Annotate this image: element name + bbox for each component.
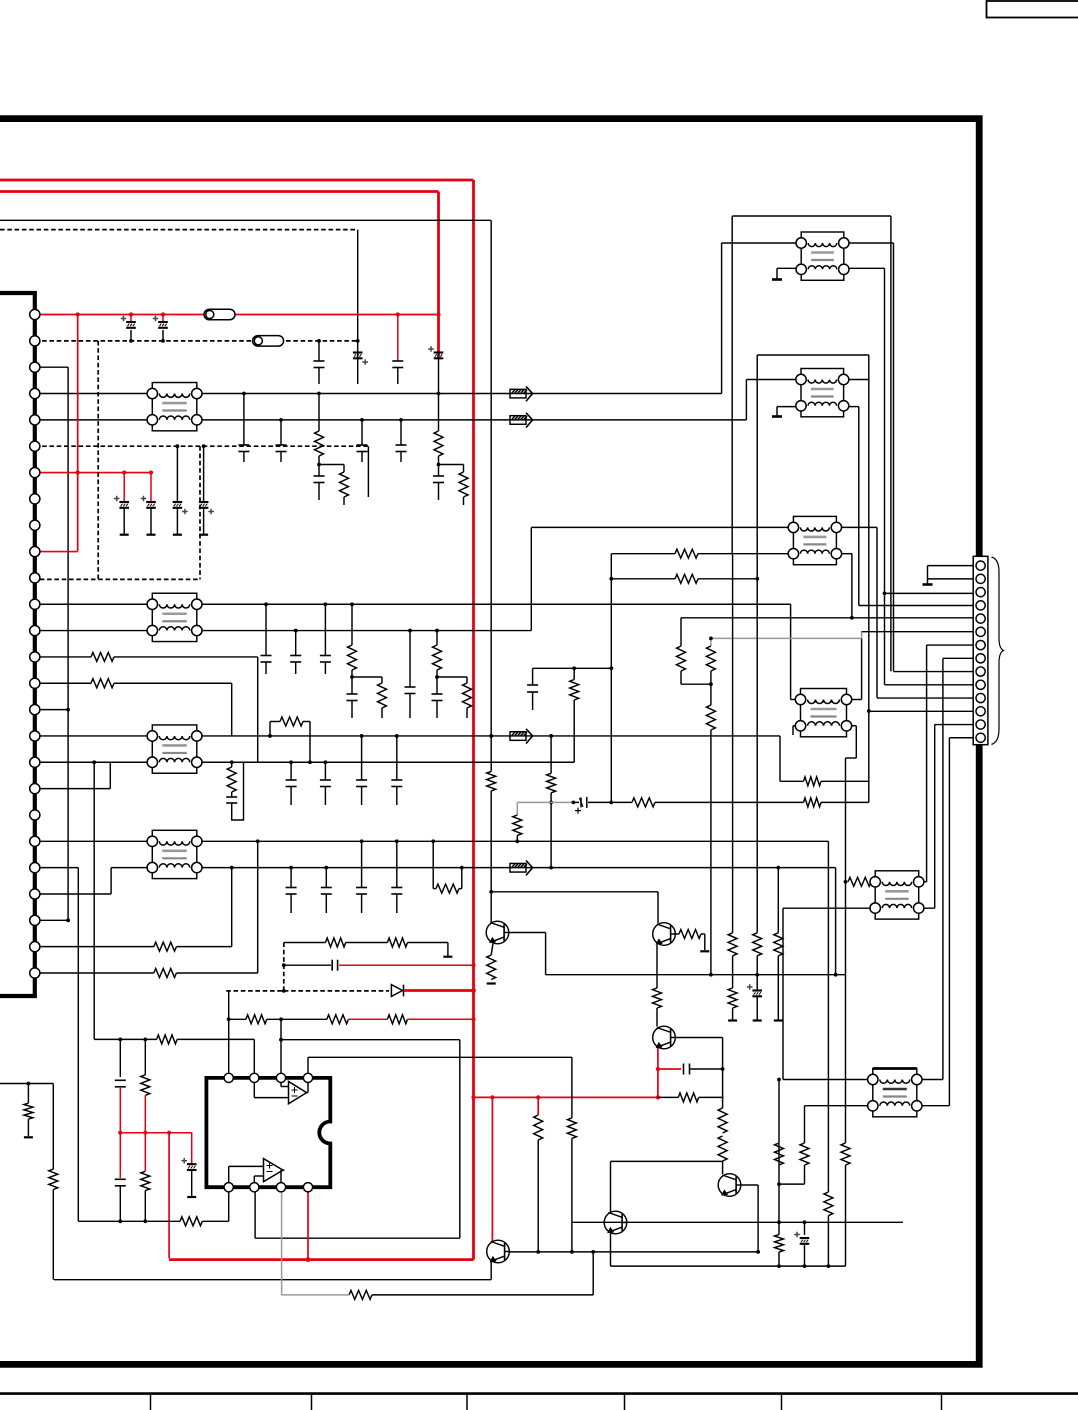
junction (283,965)	[282, 963, 286, 967]
connector CN2 pin 9	[976, 667, 985, 676]
wire res781 row b	[821, 780, 869, 782]
stub T6cap 291.1	[290, 894, 292, 913]
wire x=783 down	[782, 908, 784, 1079]
lead res pair x=319	[318, 456, 320, 465]
wire vertical x=68	[67, 367, 69, 920]
junction (593.2,1251)	[591, 1250, 595, 1254]
junction (145.3,1039)	[143, 1038, 147, 1042]
lead T4cap 325.4	[324, 762, 326, 780]
red junction (473,965)	[471, 963, 475, 967]
wire bus pin25 row a	[35, 946, 154, 948]
IC U1 top pin x=254.3	[250, 1073, 259, 1082]
connector CN1 pin 10	[30, 546, 40, 556]
transistor Q1	[486, 921, 509, 944]
wire y=802 row a	[611, 801, 632, 803]
capacitor C-804 electrolytic	[800, 1238, 810, 1244]
connector CN1 pin 2	[30, 336, 40, 346]
wire bus pin15 row a	[35, 682, 91, 684]
connector CN1 pin 25	[30, 942, 40, 952]
capacitor C-T4-325.4	[320, 779, 331, 781]
wire conn pin13	[935, 724, 973, 726]
T9 bl row	[783, 907, 875, 909]
connector CN1 pin 24	[30, 915, 40, 925]
wire x=835 down	[835, 868, 837, 975]
capacitor C-T2-266	[261, 655, 272, 657]
resistor R-pairT2-437	[463, 683, 472, 708]
junction (438.5,k3)	[437, 392, 441, 396]
connector CN1 pin 15	[30, 678, 40, 688]
junction (611,578)	[609, 577, 613, 581]
wire T5br jog h	[846, 757, 857, 759]
junction (120.3,1221)	[118, 1219, 122, 1223]
bottom table tick 3	[466, 1394, 468, 1410]
capacitor C-T2-410	[405, 686, 416, 688]
wire x=551 down b	[550, 793, 552, 868]
bridgeT6 right lead	[461, 868, 463, 889]
junction (401,k4)	[399, 418, 403, 422]
capacitor C-531	[527, 684, 538, 686]
junction (362,k4)	[360, 418, 364, 422]
dashed wire y=990 b	[284, 990, 389, 992]
wire Q2 r down	[704, 934, 706, 950]
wire conn pin9	[894, 671, 974, 673]
IC U1 bottom pin x=308	[303, 1183, 312, 1192]
wire into T7 top-left	[722, 242, 802, 244]
lead resT2 437	[436, 631, 438, 645]
wire 732 stub	[732, 1008, 734, 1020]
wire y=942 row a	[284, 942, 326, 944]
red lead 145 low	[144, 1133, 146, 1172]
junction (517,841)	[515, 839, 519, 843]
stub pairT2c 437	[436, 701, 438, 719]
capacitor C-965	[331, 960, 333, 971]
junction (779,1266)	[777, 1264, 781, 1268]
resistor R-732	[728, 933, 737, 956]
wire 778 stub	[777, 956, 779, 1020]
red lead 120 low	[119, 1133, 121, 1178]
lead capT2 266	[265, 604, 267, 655]
wire pin3 col up	[280, 1019, 282, 1078]
stub T6cap 396.8	[396, 894, 398, 913]
junction (573,802)	[572, 801, 576, 805]
wire x=858 down to conn pin4	[858, 407, 860, 606]
capacitor C-k5-203.6 electrolytic	[199, 502, 209, 508]
junction (243.9,k3)	[242, 392, 246, 396]
lead cap row1 x=243.9	[243, 394, 245, 445]
connector CN1 pin 21	[30, 836, 40, 846]
stub T4cap 396.8	[396, 787, 398, 806]
lead T6cap 326.3	[325, 868, 327, 888]
wire op2 in- h	[229, 1165, 264, 1167]
IC U1 top pin x=228.7	[224, 1073, 233, 1082]
red junction (397.8,315)	[396, 312, 400, 316]
resistor R-804	[800, 1143, 809, 1165]
resistor R-781	[804, 777, 822, 786]
wire into T8 top-left	[746, 379, 801, 381]
stub 757	[756, 997, 758, 1020]
connector CN1 pin 19	[30, 784, 40, 794]
red wire x=492 down	[491, 1097, 493, 1241]
lead C2a	[318, 341, 320, 361]
wire T6 bl elbow c	[35, 893, 111, 895]
resistor R-k13	[91, 652, 114, 661]
red wire bus pin10 row	[35, 551, 78, 553]
lead res row1 x=438.5	[438, 394, 440, 431]
wire pin1 col up	[228, 991, 230, 1078]
T8 ground lead a	[777, 406, 801, 408]
red wire Q3 emitter	[657, 1048, 659, 1069]
capacitor C-T4-361.6	[356, 779, 367, 781]
wire conn pin6 row	[862, 631, 973, 633]
connector CN2 pin 10	[976, 680, 985, 689]
off-page arrow 4	[510, 861, 533, 876]
capacitor C-row1-243.9	[238, 444, 249, 446]
stub T6cap 326.3	[325, 894, 327, 913]
lead ecap 203.6	[203, 446, 205, 502]
wire x=845 down b	[845, 1165, 847, 1266]
T8 box right edge	[868, 355, 870, 802]
wire y=1266 row	[611, 1265, 846, 1267]
T3 bottom row a	[611, 553, 675, 555]
wire bus pin18 to T4	[35, 761, 153, 763]
T3 top row	[531, 526, 793, 528]
capacitor C-k6-124.2 electrolytic	[119, 502, 129, 508]
lead res pair x=438.5	[438, 456, 440, 465]
wire 779 to bottom	[778, 1252, 780, 1266]
wire x=828 down b	[827, 1216, 829, 1267]
red wire bus pin7 row	[35, 472, 151, 474]
resistor R-1019b	[327, 1015, 349, 1024]
wire T6 top right row	[197, 840, 829, 842]
resistor R-491	[487, 771, 496, 791]
open end 757	[753, 1019, 762, 1021]
wire cap-gray left lead	[573, 801, 579, 803]
wire y=1279 row	[54, 1279, 491, 1281]
wire x=949 down to T10	[948, 738, 950, 1106]
resistor R-942a	[326, 938, 346, 947]
wire x=861 to T5	[861, 638, 863, 699]
wire x=545 down	[545, 933, 547, 975]
wire bus pin14 row b	[114, 656, 258, 658]
diode D1	[391, 985, 403, 997]
capacitor C-T6-396.8	[391, 887, 402, 889]
red lead C2c	[397, 315, 399, 362]
wire y=802 row c	[821, 801, 869, 803]
pair capT2 lead 352	[351, 677, 353, 694]
red wire y=1019 b	[408, 1018, 474, 1020]
wire bus pin19 row	[35, 788, 111, 790]
resistor R-802a	[632, 798, 655, 807]
junction (68,920)	[66, 918, 70, 922]
wire x=78 down to IC area	[77, 868, 79, 1222]
T8 tr wire	[844, 379, 869, 381]
transformer T6	[147, 830, 202, 878]
wire y=1039 left row b	[177, 1038, 254, 1040]
ferrite bead FB1	[204, 309, 235, 320]
resistor R-710	[706, 646, 715, 671]
wire x=723 res col a	[722, 1069, 724, 1108]
transformer T9	[870, 871, 924, 919]
lead rc231b	[231, 792, 233, 797]
leadT2b 352	[351, 670, 353, 677]
junction pair (319,464)	[317, 463, 321, 467]
bridgeT6 left lead	[432, 841, 434, 888]
stub ecap2 124.2	[123, 508, 125, 535]
resistor R-Q1e	[487, 955, 496, 980]
gray wire pin3b col	[281, 1187, 283, 1295]
red lead ecap 151	[150, 473, 152, 502]
wire cap-gray right lead	[588, 801, 611, 803]
junction (94,762)	[92, 760, 96, 764]
red junction (77.7,472)	[76, 470, 80, 474]
off-page arrow 3	[510, 729, 533, 744]
wire x=884 down to conn pin10	[884, 268, 886, 684]
wire y=1221 row b	[202, 1220, 228, 1222]
T9 res to pin	[871, 881, 875, 883]
wire 757 to row	[756, 956, 758, 975]
wire op2 in- lead	[228, 1166, 230, 1187]
capacitor C2c	[392, 360, 403, 362]
dashed wire bus pin2 row b	[286, 340, 358, 342]
connector CN2 pin 4	[976, 601, 985, 610]
connector CN1 pin 7	[30, 467, 40, 477]
junction (231,762)	[230, 760, 234, 764]
stub cap row1 x=243.9	[243, 452, 245, 463]
resistor R-578	[675, 574, 698, 583]
wire conn pin7	[927, 644, 973, 646]
junction (131,341)	[129, 339, 133, 343]
wire x=551 down a	[550, 736, 552, 773]
wire op1 out up	[307, 1078, 309, 1093]
res578 wire b	[698, 578, 757, 580]
stub ecap2 151	[150, 508, 152, 535]
junction (231,868)	[230, 866, 234, 870]
wire T6 bottom right row	[197, 867, 836, 869]
capacitor C-T4-396.8	[391, 779, 402, 781]
red wire y=965	[339, 964, 474, 966]
open end 191	[187, 1196, 196, 1198]
red junction (657.9,1097)	[656, 1095, 660, 1099]
bottom table tick 1	[150, 1394, 152, 1410]
wire y=1039 right row	[281, 1039, 460, 1041]
bottom table tick 4	[624, 1394, 626, 1410]
wire op1 out	[307, 1092, 308, 1094]
junction (203.6,446)	[202, 444, 206, 448]
resistor R-pairT2-352	[378, 683, 387, 708]
red wire y=1132 row	[120, 1132, 191, 1134]
junction (281,k4)	[279, 418, 283, 422]
transformer T5	[795, 689, 851, 737]
wire pin2 col up	[253, 1039, 255, 1078]
capacitor C-pair-319	[314, 475, 325, 477]
junction T4cap 396.8	[395, 734, 399, 738]
resistor R-779b	[775, 1235, 784, 1252]
IC U1 top pin x=281	[276, 1073, 285, 1082]
wire bus pin5 to T1	[35, 419, 153, 421]
resistor R-681	[677, 646, 686, 671]
T7 box top edge	[732, 215, 891, 217]
capacitor C-k5-177.4 electrolytic	[173, 502, 183, 508]
red lead cap x=131	[130, 315, 132, 323]
lead C-531	[532, 668, 534, 685]
junction (257,841)	[256, 839, 260, 843]
junction T4cap 325.4	[324, 760, 328, 764]
T3 tr wire	[836, 526, 877, 528]
ferrite bead FB2	[253, 336, 284, 347]
red wire x=538 down	[537, 1097, 539, 1115]
wire conn pin12	[869, 710, 973, 712]
wire x=926 down to T9	[926, 645, 928, 882]
junction bridge R	[308, 760, 312, 764]
T5 bl stub v	[792, 726, 794, 735]
capacitor C-row1-362	[357, 444, 368, 446]
resistor R-723b	[718, 1136, 727, 1161]
wire bus pin25 row b	[176, 946, 231, 948]
wire x=780 down	[779, 736, 781, 781]
left bus thick wire	[0, 293, 35, 996]
resistor R-Q2	[679, 930, 701, 939]
junction (551,T4top)	[549, 734, 553, 738]
stub ecap 203.6	[203, 508, 205, 535]
red junction (473.5,1097)	[471, 1095, 475, 1099]
red junction (145.3,1132)	[143, 1131, 147, 1135]
T10 br wire	[917, 1105, 950, 1107]
dashed vertical x=283	[283, 943, 285, 991]
wire x=571 seg	[571, 1057, 573, 1118]
pair branchT2 352	[352, 676, 382, 678]
lead cap x=163 bottom	[162, 330, 164, 341]
pair resT2 lead 437	[466, 677, 468, 683]
bottom table tick 6	[941, 1394, 943, 1410]
T7 ground lead b	[776, 268, 778, 278]
wire R-575 to T4 row	[573, 700, 575, 762]
open end Q2	[700, 950, 709, 952]
lead capT2 295.7	[295, 631, 297, 656]
bottom table header line	[0, 1392, 1078, 1395]
resistor R-pair-319	[340, 472, 349, 497]
IC U1 bottom pin x=254.3	[250, 1183, 259, 1192]
wire x=779 low	[778, 1184, 780, 1222]
capacitor C-T6-361.6	[356, 887, 367, 889]
wire x=723 res col b	[722, 1161, 724, 1174]
capacitor C-120.3u	[115, 1079, 126, 1081]
junction (410,630)	[408, 629, 412, 633]
wire y=1161 row	[611, 1160, 724, 1162]
T7 box left edge	[731, 216, 733, 555]
dashed wire bus pin6 row	[35, 445, 369, 447]
wire 757 below row	[756, 975, 758, 990]
T7 br wire	[844, 267, 885, 269]
wire bus pin15 row b	[114, 682, 232, 684]
wire x=851 down	[851, 554, 853, 618]
wire rc loop 231	[232, 762, 244, 820]
stub cap row1 x=401	[400, 452, 402, 463]
wire y=668 tee row	[533, 667, 612, 669]
junction pairT2 352	[350, 675, 354, 679]
stub C2b	[357, 359, 359, 385]
junction (68,709)	[66, 708, 70, 712]
transformer T7	[796, 232, 849, 280]
stub pair res 319	[343, 497, 345, 505]
resistor R-551a	[675, 549, 698, 558]
wire x=257 down to T4 bottom row	[257, 657, 259, 762]
junction T6cap 326.3	[324, 866, 328, 870]
capacitor C-row1-401	[396, 444, 407, 446]
wire op1 in+ lead	[280, 1078, 282, 1087]
capacitor C-top163 electrolytic	[158, 322, 168, 328]
pair capT2 lead 437	[436, 677, 438, 694]
wire x=732 lower	[732, 555, 734, 933]
junction node (357.7,341)	[356, 339, 360, 343]
wire Q3 right	[675, 1037, 722, 1039]
red junction (492.4,1097)	[490, 1095, 494, 1099]
resistor R-k25	[154, 969, 177, 978]
wire y=1251 row	[509, 1251, 758, 1253]
wire x=721 up to T7 row	[721, 243, 723, 394]
junction (779,1184)	[777, 1182, 781, 1186]
junction pair (438.5,464)	[437, 463, 441, 467]
connector CN2 pin 11	[976, 693, 985, 702]
wire x=804 ecap lead	[804, 1222, 806, 1235]
resistor R-145.3u	[141, 1075, 150, 1096]
wire 447 down	[447, 943, 449, 956]
T5 tl stub	[791, 699, 801, 701]
wire T6 bl elbow a	[111, 867, 152, 869]
wire x=804 down b	[804, 1165, 806, 1184]
open end bar 203.6	[199, 534, 208, 536]
connector CN1 pin 3	[30, 362, 40, 372]
connector CN1 pin 23	[30, 889, 40, 899]
resistor R-1019a	[246, 1015, 267, 1024]
connector CN1 pin 1	[30, 309, 40, 319]
lead T6cap 361.6	[361, 841, 363, 887]
wire T1 top right row	[197, 393, 722, 395]
capacitor C-120l	[115, 1178, 126, 1180]
T5 br stub	[847, 725, 857, 727]
connector CN1 pin 13	[30, 625, 40, 635]
pair cap lead 319	[318, 465, 320, 477]
T10 tr wire	[917, 1079, 943, 1081]
wire Q2e to Q3	[656, 1008, 658, 1027]
connector CN2 pin 6	[976, 627, 985, 636]
T8 br wire	[844, 406, 859, 408]
wire Q5 down	[610, 1233, 612, 1266]
wire T4 top right row	[197, 735, 780, 737]
T3 br wire	[836, 553, 852, 555]
capacitor C-T6-326.3	[321, 887, 332, 889]
open end bar2 151	[147, 534, 156, 536]
connector CN2 pin 14	[976, 733, 985, 742]
open end bar 177.4	[173, 534, 182, 536]
red junction (124.2,472)	[122, 470, 126, 474]
connector CN2 pin 1	[976, 561, 985, 570]
wire x=758 down	[757, 1185, 759, 1252]
junction T4cap 291.1	[289, 760, 293, 764]
T7 ground lead a	[777, 267, 801, 269]
wire op1 in- h	[254, 1097, 288, 1099]
transformer T4	[147, 725, 202, 773]
junction T6cap 361.6	[360, 839, 364, 843]
IC U1 bottom pin x=281	[276, 1183, 285, 1192]
capacitor C-231	[226, 796, 237, 798]
red wire Q3e down	[657, 1069, 659, 1097]
wire bus pin4 to T1	[35, 393, 153, 395]
wire x=53 vert b	[52, 1190, 54, 1280]
wire pin2b col	[254, 1187, 256, 1238]
wire 28 stub	[27, 1119, 29, 1136]
lead 145.3 upper	[144, 1039, 146, 1074]
stub cap row1 x=362	[361, 452, 363, 463]
